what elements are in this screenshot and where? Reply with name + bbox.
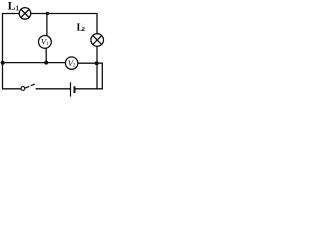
wire main loop: upper-right vertical, top wire, left vertical, bottom-left segment [3, 14, 98, 89]
wire bottom right segment, outer right vertical and stub to node D [75, 63, 102, 89]
label L2 [77, 22, 85, 33]
voltmeter V1 [39, 36, 52, 49]
wire V1 bottom to node B [45, 48, 47, 62]
node B junction dot [44, 61, 48, 65]
voltmeter V2 [65, 57, 77, 69]
node A junction dot [46, 12, 49, 15]
svg-text:1: 1 [46, 41, 49, 47]
wire right vertical lower (lamp L2 to bottom wire) [96, 46, 98, 89]
battery (cell: long thin plate + short thick plate) [71, 82, 75, 96]
label V2 (inside meter) [68, 58, 76, 69]
svg-text:2: 2 [82, 27, 85, 33]
lamp L1 [19, 8, 31, 20]
svg-text:L: L [8, 0, 16, 13]
lamp L2 [91, 34, 104, 47]
svg-text:2: 2 [73, 63, 76, 69]
wire middle horizontal right (voltmeter V2 to node D) [78, 62, 97, 64]
svg-text:1: 1 [16, 5, 20, 13]
label V1 (inside meter) [41, 37, 49, 48]
node D junction dot [95, 61, 99, 65]
label L1 [8, 0, 20, 13]
wire bottom middle segment (switch to battery) [36, 88, 70, 90]
node C junction dot [1, 61, 5, 65]
switch S (open, pivot circle + blade) [21, 84, 35, 91]
wire V1 drop from node A [46, 14, 48, 36]
wire middle horizontal left (node C to voltmeter V2) [3, 62, 66, 64]
